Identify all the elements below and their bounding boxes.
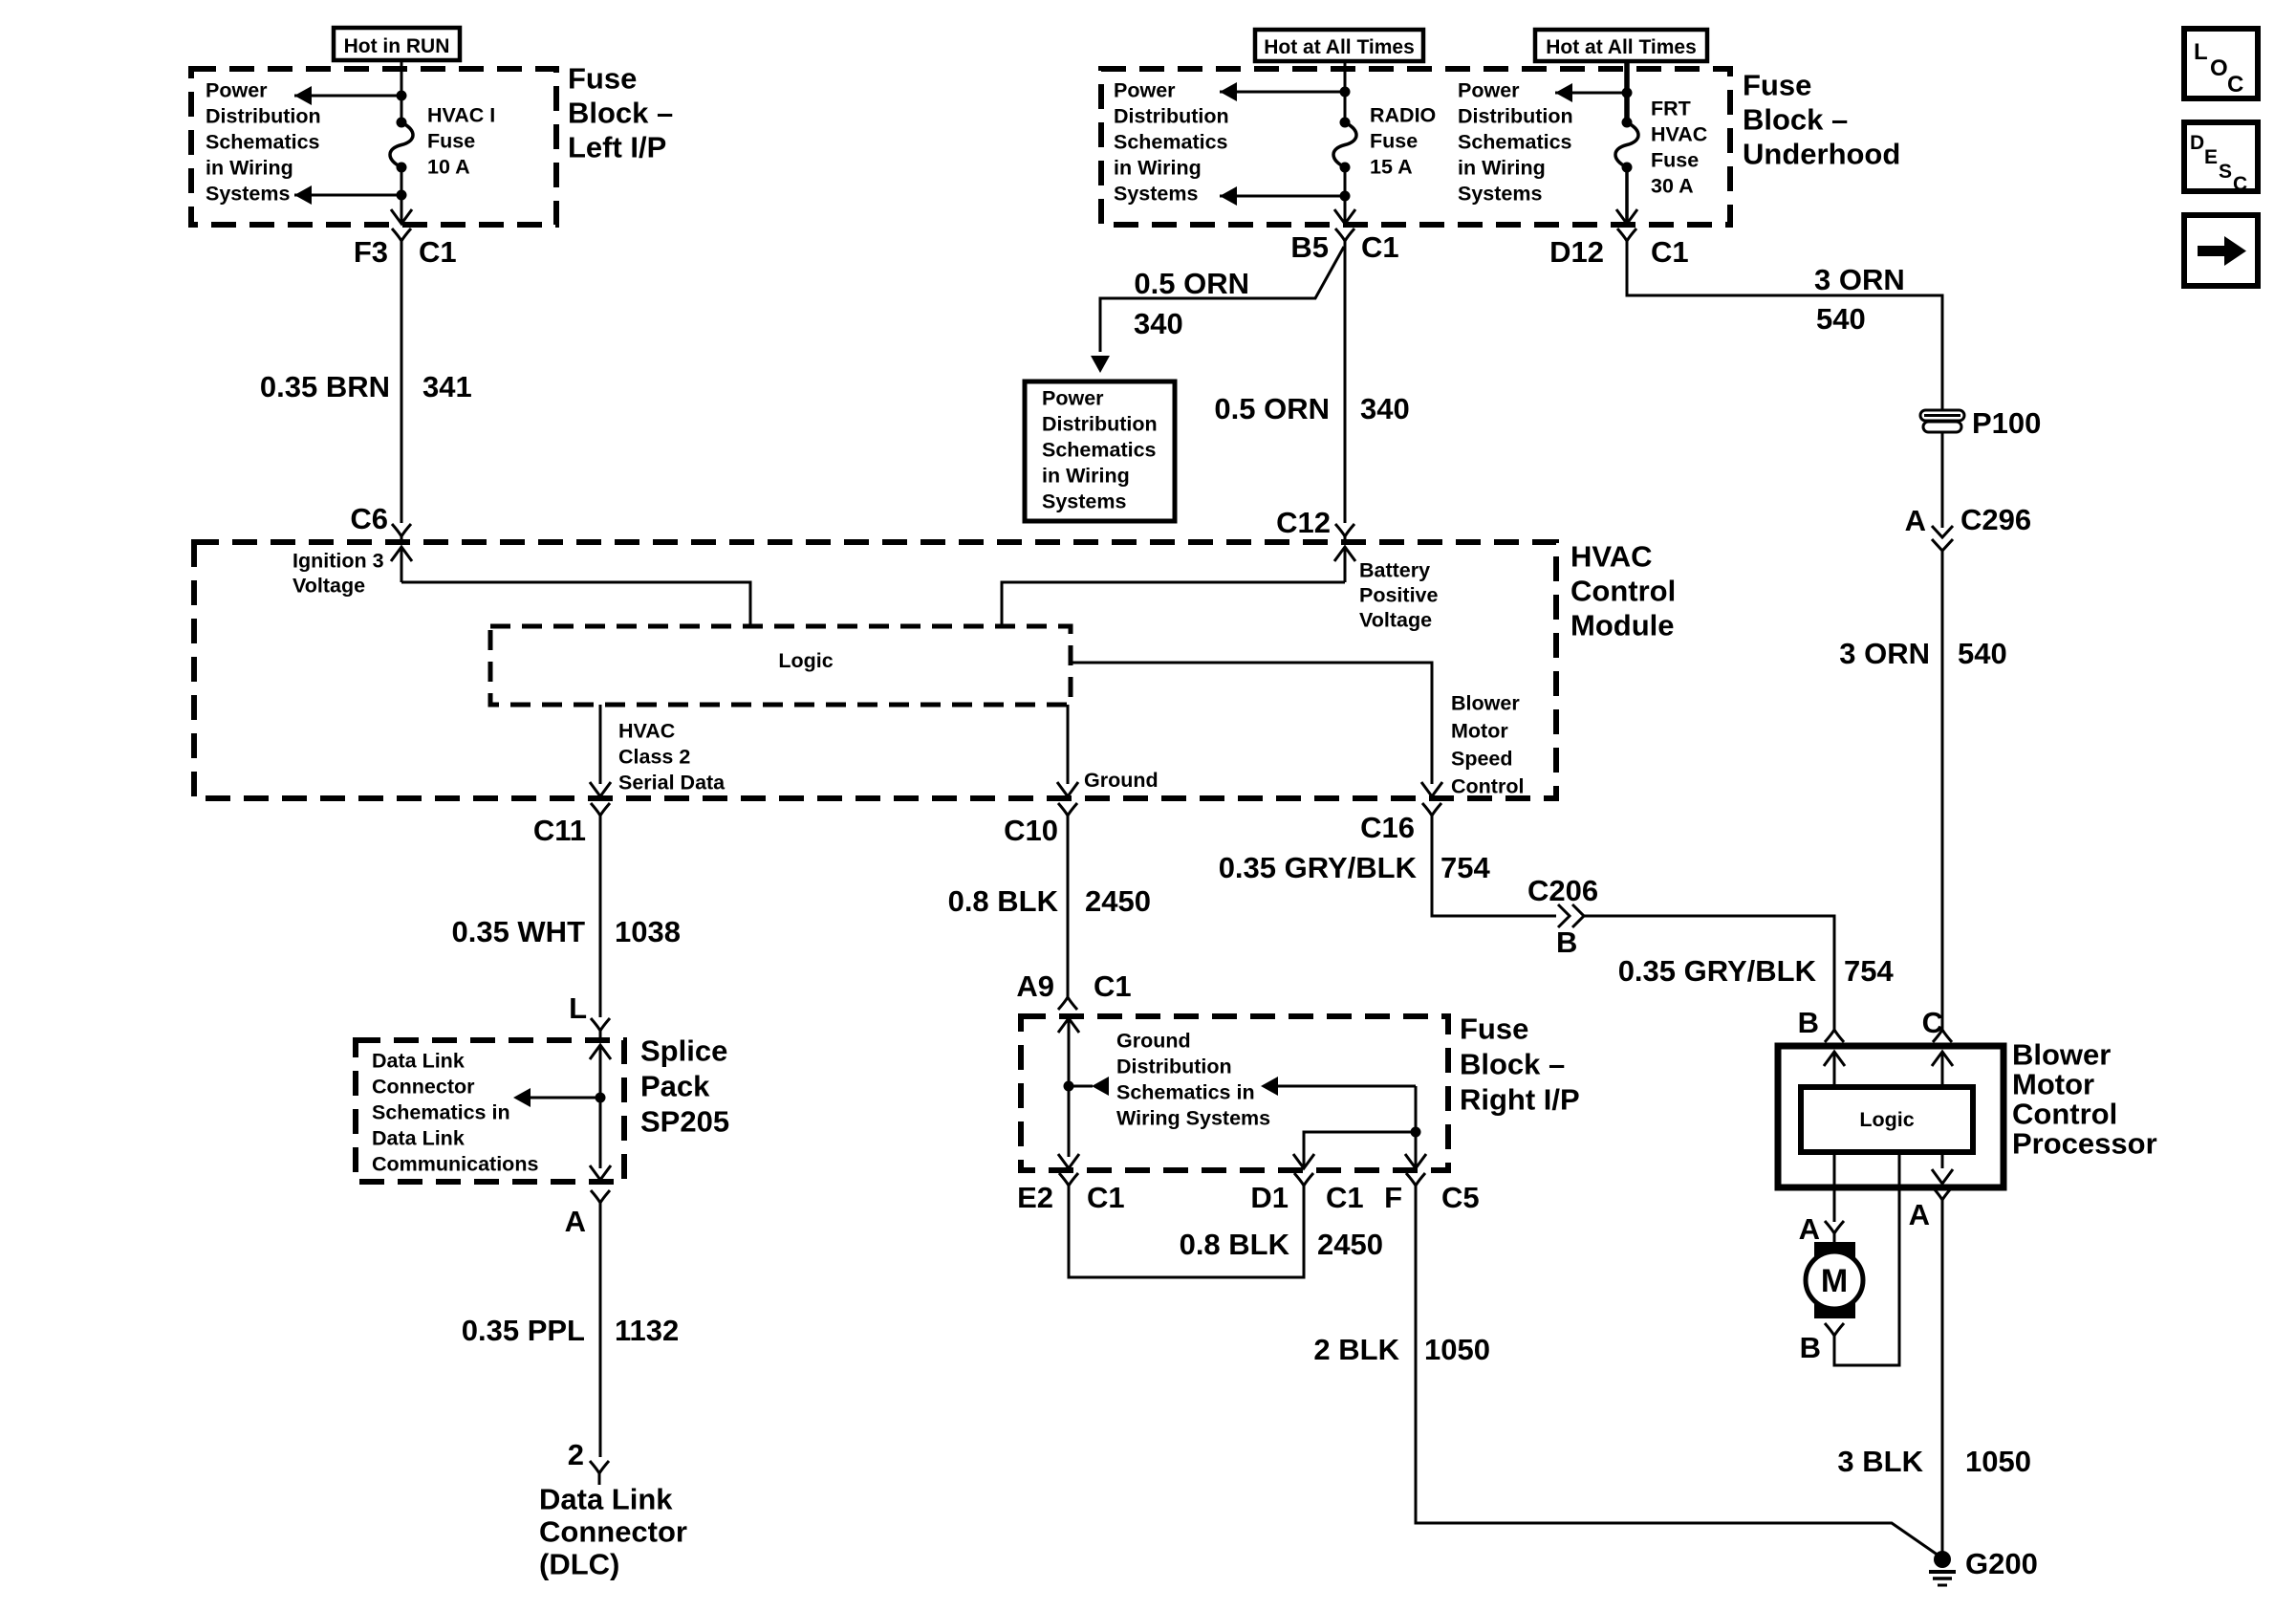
svg-text:340: 340 (1360, 392, 1410, 425)
wire 0.35 PPL 1132 (splice to DLC) (599, 1216, 602, 1457)
svg-text:0.35 WHT: 0.35 WHT (451, 915, 585, 948)
pin label C (blower) (1922, 1006, 1943, 1039)
svg-text:Ground: Ground (1116, 1030, 1191, 1053)
svg-text:Power: Power (206, 79, 268, 102)
svg-text:Right I/P: Right I/P (1460, 1083, 1580, 1117)
text "Logic" (blower) (1859, 1108, 1914, 1131)
svg-text:C: C (2233, 173, 2247, 195)
svg-text:Class 2: Class 2 (618, 746, 690, 769)
wire label 1038 (615, 915, 681, 948)
svg-text:B: B (1798, 1006, 1819, 1039)
inline connector C296 (double chevron down) (1932, 526, 1953, 551)
text "Logic" (HVAC module) (778, 649, 833, 672)
svg-text:3 BLK: 3 BLK (1837, 1445, 1923, 1478)
junction node SP205 (596, 1093, 606, 1103)
svg-text:D12: D12 (1549, 235, 1604, 269)
svg-text:A: A (565, 1205, 586, 1238)
svg-text:Fuse: Fuse (1743, 69, 1811, 102)
svg-text:Speed: Speed (1451, 748, 1513, 771)
svg-text:C11: C11 (533, 814, 586, 847)
svg-text:Distribution: Distribution (1042, 413, 1158, 436)
wire from Hot at All Times to FRT HVAC fuse (heavy) (1624, 61, 1630, 122)
svg-text:Systems: Systems (1042, 490, 1126, 513)
pin label A9 (1016, 969, 1054, 1003)
svg-text:10 A: 10 A (427, 156, 470, 179)
wire label 340 (main) (1360, 392, 1410, 425)
connector E2 symbol (1059, 1173, 1078, 1199)
svg-text:Data Link: Data Link (372, 1127, 465, 1150)
svg-text:Distribution: Distribution (1116, 1056, 1232, 1078)
pin label F3 (354, 235, 388, 269)
svg-text:Wiring Systems: Wiring Systems (1116, 1107, 1270, 1130)
pin label B5 (1290, 230, 1329, 264)
svg-text:Block –: Block – (1743, 103, 1848, 137)
connector C1 pin F3 symbol (392, 229, 411, 254)
arrow out of module at C16 (1421, 782, 1442, 796)
svg-text:Schematics in: Schematics in (1116, 1081, 1255, 1104)
wire label 754 (lower) (1844, 954, 1894, 988)
connector A symbol (splice pack) (591, 1190, 610, 1216)
arrow inside right I/P block (up at A9) (1058, 1018, 1079, 1157)
internal wire C12 to logic (1002, 582, 1345, 626)
svg-text:1038: 1038 (615, 915, 681, 948)
pin label B (blower) (1798, 1006, 1819, 1039)
svg-text:Hot in RUN: Hot in RUN (344, 35, 450, 57)
svg-text:Power: Power (1114, 79, 1176, 102)
wire 0.35 GRY/BLK 754 (C206 to blower B) (1584, 916, 1834, 1016)
svg-text:754: 754 (1844, 954, 1894, 988)
wire label 341 (422, 370, 472, 403)
svg-text:Serial Data: Serial Data (618, 772, 726, 795)
svg-text:HVAC: HVAC (1651, 123, 1707, 146)
text "Blower Motor Speed Control" (1451, 692, 1524, 798)
internal wire logic to motor A (1833, 1152, 1836, 1222)
wire label 540 (top) (1816, 302, 1866, 336)
junction node on F3 feed (top) (397, 91, 407, 101)
fuse RADIO 15 A (1333, 118, 1356, 173)
svg-text:1050: 1050 (1424, 1333, 1490, 1366)
wire label 1050 (right) (1965, 1445, 2031, 1478)
svg-text:Control: Control (2012, 1098, 2117, 1131)
svg-text:2 BLK: 2 BLK (1313, 1333, 1399, 1366)
svg-text:Motor: Motor (1451, 720, 1508, 743)
svg-text:B: B (1556, 925, 1577, 959)
wire label 0.8 BLK (upper) (948, 884, 1059, 918)
svg-text:Voltage: Voltage (292, 575, 365, 598)
svg-text:Fuse: Fuse (427, 130, 475, 153)
svg-text:Distribution: Distribution (1114, 105, 1229, 128)
svg-text:HVAC: HVAC (618, 720, 675, 743)
text "Ground" (module exit) (1084, 769, 1159, 792)
connector A symbol (ground side) (1933, 1187, 1952, 1213)
svg-text:0.5 ORN: 0.5 ORN (1134, 267, 1249, 300)
pin label C1 (FRT HVAC fuse) (1651, 235, 1689, 269)
connector C11 symbol (591, 803, 610, 829)
wire 2 BLK 1050 (F/C5 to ground) (1416, 1199, 1941, 1557)
wire 0.5 ORN 340 (B5 to C12) (1344, 254, 1347, 523)
text "HVAC Class 2 Serial Data" (618, 720, 726, 795)
junction node on F3 feed (bottom) (397, 190, 407, 201)
svg-text:30 A: 30 A (1651, 175, 1694, 198)
ground symbol G200 (1929, 1572, 1956, 1585)
icon box right arrow (2184, 215, 2258, 286)
fuse FRT HVAC 30 A (1615, 118, 1638, 173)
pin label A (motor feed) (1799, 1212, 1820, 1246)
svg-text:C1: C1 (1326, 1181, 1364, 1214)
wire P100 to C296 (1941, 432, 1944, 528)
svg-text:540: 540 (1816, 302, 1866, 336)
internal wire logic to C10 exit (1067, 705, 1070, 784)
svg-text:S: S (2219, 161, 2232, 183)
svg-text:Power: Power (1458, 79, 1520, 102)
svg-text:Distribution: Distribution (206, 105, 321, 128)
wire label 540 (right) (1958, 637, 2007, 670)
svg-text:0.35 GRY/BLK: 0.35 GRY/BLK (1618, 954, 1817, 988)
svg-text:Connector: Connector (539, 1515, 687, 1549)
pin label E2 (1017, 1181, 1053, 1214)
connector L symbol (splice pack) (591, 1018, 610, 1038)
wire label 2 BLK (1313, 1333, 1399, 1366)
internal wire logic to C16 exit (blower motor speed control) (1071, 663, 1432, 784)
pin label C1 (D1) (1326, 1181, 1364, 1214)
arrow into module at C12 (battery positive voltage) (1334, 547, 1355, 582)
svg-text:in Wiring: in Wiring (1042, 465, 1130, 488)
text "Fuse Block - Underhood" (1743, 69, 1900, 171)
connector C16 symbol (1422, 803, 1441, 829)
svg-text:2450: 2450 (1085, 884, 1151, 918)
wire label 340 (branch) (1134, 307, 1183, 340)
fuse block - right I/P dashed box (1021, 1016, 1448, 1170)
text "Fuse Block - Right I/P" (1460, 1012, 1580, 1117)
pin label C6 (350, 502, 388, 535)
wire label 0.35 BRN (260, 370, 390, 403)
svg-text:C1: C1 (1651, 235, 1689, 269)
fuse block - underhood dashed box (1101, 69, 1730, 225)
svg-text:0.35 GRY/BLK: 0.35 GRY/BLK (1219, 851, 1418, 884)
svg-text:Processor: Processor (2012, 1127, 2157, 1161)
svg-text:340: 340 (1134, 307, 1183, 340)
svg-text:E2: E2 (1017, 1181, 1053, 1214)
svg-text:1132: 1132 (615, 1314, 679, 1347)
pin label L (splice pack) (569, 991, 587, 1025)
arrow out of module at C11 (590, 782, 611, 796)
svg-text:540: 540 (1958, 637, 2007, 670)
svg-text:in Wiring: in Wiring (1458, 157, 1546, 180)
svg-text:3 ORN: 3 ORN (1814, 263, 1905, 296)
pin label C11 (533, 814, 586, 847)
pin label D1 (1250, 1181, 1289, 1214)
wire label 3 ORN (right) (1839, 637, 1930, 670)
svg-text:Fuse: Fuse (568, 62, 637, 96)
connector label C296 (1960, 503, 2031, 536)
connector B symbol (motor) (1825, 1323, 1844, 1349)
svg-text:Motor: Motor (2012, 1068, 2094, 1101)
svg-text:C6: C6 (350, 502, 388, 535)
svg-text:Voltage: Voltage (1359, 609, 1432, 632)
svg-text:C206: C206 (1527, 874, 1598, 907)
svg-text:Control: Control (1451, 775, 1524, 798)
text "Battery Positive Voltage" (1359, 559, 1438, 632)
wire label 0.35 GRY/BLK (lower) (1618, 954, 1817, 988)
text power distribution schematics (solid box) (1042, 387, 1158, 513)
pin label C1 (A9) (1094, 969, 1132, 1003)
svg-text:Left I/P: Left I/P (568, 131, 666, 164)
svg-text:L: L (569, 991, 587, 1025)
svg-text:Blower: Blower (2012, 1038, 2111, 1072)
fuse block - left I/P dashed box (191, 69, 556, 225)
pin label C12 (1276, 506, 1331, 539)
svg-text:Module: Module (1570, 609, 1675, 642)
svg-text:Power: Power (1042, 387, 1104, 410)
arrow out of blower box at A (right) (1932, 1169, 1953, 1184)
junction node F feed (1411, 1127, 1421, 1138)
internal wire C6 to logic (401, 582, 750, 626)
logic dashed box (HVAC module) (490, 626, 1071, 705)
reference arrow to power distribution schematics (top left) (294, 86, 401, 105)
svg-text:Hot at All Times: Hot at All Times (1546, 36, 1697, 58)
wire label 1132 (615, 1314, 679, 1347)
splice pack SP205 dashed box (356, 1040, 624, 1182)
svg-text:A: A (1799, 1212, 1820, 1246)
wire label 3 ORN (top) (1814, 263, 1905, 296)
wire label 3 BLK (1837, 1445, 1923, 1478)
reference arrow (left) ground distribution (1069, 1077, 1109, 1096)
reference arrow to power distribution schematics (bottom left) (294, 185, 401, 205)
reference arrow to power distribution (radio top) (1220, 82, 1345, 101)
text power distribution schematics (radio fuse) (1114, 79, 1229, 206)
connector D1 symbol (1294, 1173, 1313, 1199)
connector C12 symbol (1335, 524, 1354, 542)
svg-text:1050: 1050 (1965, 1445, 2031, 1478)
svg-text:Schematics: Schematics (1458, 131, 1572, 154)
text "Ignition 3 Voltage" (292, 550, 384, 598)
arrow out of module at C10 (1057, 782, 1078, 796)
text "FRT HVAC Fuse 30 A" (1651, 98, 1707, 198)
svg-text:Blower: Blower (1451, 692, 1520, 715)
text "Fuse Block - Left I/P" (568, 62, 673, 164)
wire 0.8 BLK 2450 (E2 to D1 loop) (1069, 1199, 1304, 1277)
wire 0.8 BLK 2450 (C10 to A9) (1067, 829, 1070, 985)
logic solid box (blower) (1801, 1087, 1973, 1152)
svg-text:0.5 ORN: 0.5 ORN (1214, 392, 1330, 425)
svg-text:Control: Control (1570, 575, 1676, 608)
junction node on B5 feed (bottom) (1340, 191, 1351, 202)
wire 0.35 GRY/BLK 754 (C16 to C206) (1432, 829, 1556, 916)
grommet P100 (1920, 410, 1964, 432)
svg-text:RADIO: RADIO (1370, 104, 1436, 127)
pin label F (1384, 1181, 1402, 1214)
svg-text:Fuse: Fuse (1651, 149, 1699, 172)
svg-text:F3: F3 (354, 235, 388, 269)
pin label B (motor) (1800, 1331, 1821, 1364)
svg-text:A: A (1909, 1198, 1930, 1231)
label box "Hot in RUN" (334, 28, 460, 60)
svg-text:Data Link: Data Link (372, 1050, 465, 1073)
blower motor control processor box (1778, 1046, 2004, 1187)
pin label A (splice pack) (565, 1205, 586, 1238)
svg-text:HVAC I: HVAC I (427, 104, 495, 127)
arrow out of fuse block at B5 (1334, 209, 1355, 224)
svg-text:C1: C1 (1087, 1181, 1125, 1214)
svg-text:Distribution: Distribution (1458, 105, 1573, 128)
svg-text:Block –: Block – (568, 97, 673, 130)
connector C6 symbol (392, 524, 411, 542)
text "HVAC Control Module" (1570, 540, 1676, 642)
svg-text:L: L (2194, 39, 2208, 65)
pin label C1 (left fuse block) (419, 235, 457, 269)
svg-text:Connector: Connector (372, 1076, 475, 1099)
junction node on B5 feed (top) (1340, 87, 1351, 98)
internal wire logic to C11 exit (599, 705, 602, 784)
power distribution schematics solid box (1025, 381, 1175, 521)
svg-text:Logic: Logic (1859, 1108, 1914, 1131)
wire label 0.35 GRY/BLK (upper) (1219, 851, 1418, 884)
svg-text:0.35 PPL: 0.35 PPL (462, 1314, 585, 1347)
svg-text:B5: B5 (1290, 230, 1329, 264)
internal wire to D1 exit (1304, 1132, 1416, 1168)
reference arrow (right) ground distribution (1261, 1077, 1416, 1096)
arrow out of fuse block at F3 (391, 209, 412, 224)
pin label B (C206) (1556, 925, 1577, 959)
connector pin 2 symbol (DLC) (590, 1461, 609, 1485)
svg-text:Block –: Block – (1460, 1048, 1565, 1081)
arrow out of block at F (1405, 1154, 1426, 1168)
ground label G200 (1965, 1547, 2038, 1580)
connector C symbol (blower) (1933, 1016, 1952, 1042)
wire 0.35 BRN 341 (F3 to C6) (401, 254, 403, 523)
svg-text:B: B (1800, 1331, 1821, 1364)
wire 3 BLK 1050 (blower A to G200) (1941, 1213, 1944, 1553)
internal wire logic to motor B return (1834, 1152, 1899, 1365)
icon box LOC (2184, 29, 2258, 98)
connector C10 symbol (1058, 803, 1077, 829)
svg-text:F: F (1384, 1181, 1402, 1214)
wire label 0.5 ORN (branch) (1134, 267, 1249, 300)
svg-text:3 ORN: 3 ORN (1839, 637, 1930, 670)
wire label 0.35 PPL (462, 1314, 585, 1347)
svg-text:Battery: Battery (1359, 559, 1430, 582)
arrow out of fuse block at D12 (1616, 209, 1637, 224)
svg-text:Systems: Systems (206, 183, 290, 206)
svg-text:C296: C296 (1960, 503, 2031, 536)
wire from FRT HVAC fuse to D12 exit (1625, 167, 1629, 223)
connector B symbol (blower) (1825, 1016, 1844, 1042)
svg-text:Communications: Communications (372, 1153, 538, 1176)
label box "Hot at All Times" (FRT HVAC fuse) (1535, 30, 1707, 61)
arrow out of block at D1 (1293, 1154, 1314, 1168)
svg-text:Underhood: Underhood (1743, 138, 1900, 171)
fuse HVAC I 10 A (390, 118, 413, 173)
svg-text:2450: 2450 (1317, 1228, 1383, 1261)
wire from Hot at All Times to radio fuse (1344, 61, 1347, 122)
arrow into module at C6 (ignition 3 voltage) (391, 547, 412, 582)
svg-text:15 A: 15 A (1370, 156, 1413, 179)
svg-text:M: M (1821, 1263, 1848, 1299)
svg-text:0.8 BLK: 0.8 BLK (1180, 1228, 1290, 1261)
wire label 0.35 WHT (451, 915, 585, 948)
svg-text:Ignition 3: Ignition 3 (292, 550, 384, 573)
wire from radio fuse to B5 exit (1344, 167, 1347, 223)
svg-text:HVAC: HVAC (1570, 540, 1653, 574)
wire label 1050 (left) (1424, 1333, 1490, 1366)
svg-text:Systems: Systems (1458, 183, 1542, 206)
svg-text:(DLC): (DLC) (539, 1548, 619, 1581)
pin label D12 (1549, 235, 1604, 269)
text power distribution schematics (FRT HVAC fuse) (1458, 79, 1573, 206)
reference arrow to power distribution (FRT HVAC) (1555, 83, 1627, 102)
wire from fuse to F3 exit (401, 167, 403, 223)
svg-text:O: O (2210, 55, 2228, 81)
svg-text:0.35 BRN: 0.35 BRN (260, 370, 390, 403)
svg-text:C16: C16 (1360, 811, 1415, 844)
svg-text:Data Link: Data Link (539, 1483, 673, 1516)
text "HVAC I Fuse 10 A" (427, 104, 495, 179)
svg-text:in Wiring: in Wiring (206, 157, 293, 180)
svg-text:754: 754 (1440, 851, 1490, 884)
label box "Hot at All Times" (radio fuse) (1255, 30, 1423, 61)
connector C1 pin D12 symbol (1617, 229, 1636, 254)
wire 3 ORN 540 (C296 to blower C) (1941, 551, 1944, 1016)
wire label 2450 (lower) (1317, 1228, 1383, 1261)
junction node E2 feed (1064, 1081, 1074, 1092)
svg-text:Schematics: Schematics (1114, 131, 1228, 154)
HVAC control module dashed box (194, 542, 1556, 798)
svg-text:0.8 BLK: 0.8 BLK (948, 884, 1059, 918)
pin label C10 (1004, 814, 1058, 847)
svg-text:Splice: Splice (640, 1034, 727, 1068)
pin label C1 (E2) (1087, 1181, 1125, 1214)
text "Blower Motor Control Processor" (2012, 1038, 2157, 1161)
ground node G200 dot (1934, 1551, 1951, 1568)
svg-text:Fuse: Fuse (1460, 1012, 1528, 1046)
connector A9 symbol (1058, 984, 1077, 1010)
arrow inside splice pack (up) (590, 1045, 611, 1168)
svg-text:Pack: Pack (640, 1070, 710, 1103)
svg-text:C1: C1 (1361, 230, 1399, 264)
svg-text:Fuse: Fuse (1370, 130, 1418, 153)
text ground distribution schematics (1116, 1030, 1270, 1130)
svg-text:Logic: Logic (778, 649, 833, 672)
wire label 2450 (upper) (1085, 884, 1151, 918)
wire label 0.5 ORN (main) (1214, 392, 1330, 425)
svg-text:Systems: Systems (1114, 183, 1198, 206)
svg-text:A9: A9 (1016, 969, 1054, 1003)
svg-text:C5: C5 (1441, 1181, 1480, 1214)
connector C1 pin B5 symbol (1335, 229, 1354, 254)
svg-text:D1: D1 (1250, 1181, 1289, 1214)
icon box DESC (2184, 122, 2258, 195)
svg-text:Hot at All Times: Hot at All Times (1264, 36, 1415, 58)
svg-text:C12: C12 (1276, 506, 1331, 539)
connector F symbol (1406, 1173, 1425, 1199)
svg-text:SP205: SP205 (640, 1105, 729, 1139)
arrow inside blower box at B (1824, 1052, 1845, 1087)
svg-text:P100: P100 (1972, 406, 2041, 440)
pin label C16 (1360, 811, 1415, 844)
svg-text:341: 341 (422, 370, 472, 403)
svg-text:C1: C1 (1094, 969, 1132, 1003)
svg-text:G200: G200 (1965, 1547, 2038, 1580)
arrow inside splice pack (down) (590, 1165, 611, 1180)
pin label A (C296) (1905, 504, 1926, 537)
svg-text:C: C (2227, 72, 2243, 98)
svg-text:C10: C10 (1004, 814, 1058, 847)
internal wire to F exit (1415, 1086, 1418, 1168)
pin label C5 (1441, 1181, 1480, 1214)
blower motor M (1806, 1242, 1863, 1318)
connector label C206 (1527, 874, 1598, 907)
connector A symbol (motor feed) (1825, 1221, 1844, 1247)
